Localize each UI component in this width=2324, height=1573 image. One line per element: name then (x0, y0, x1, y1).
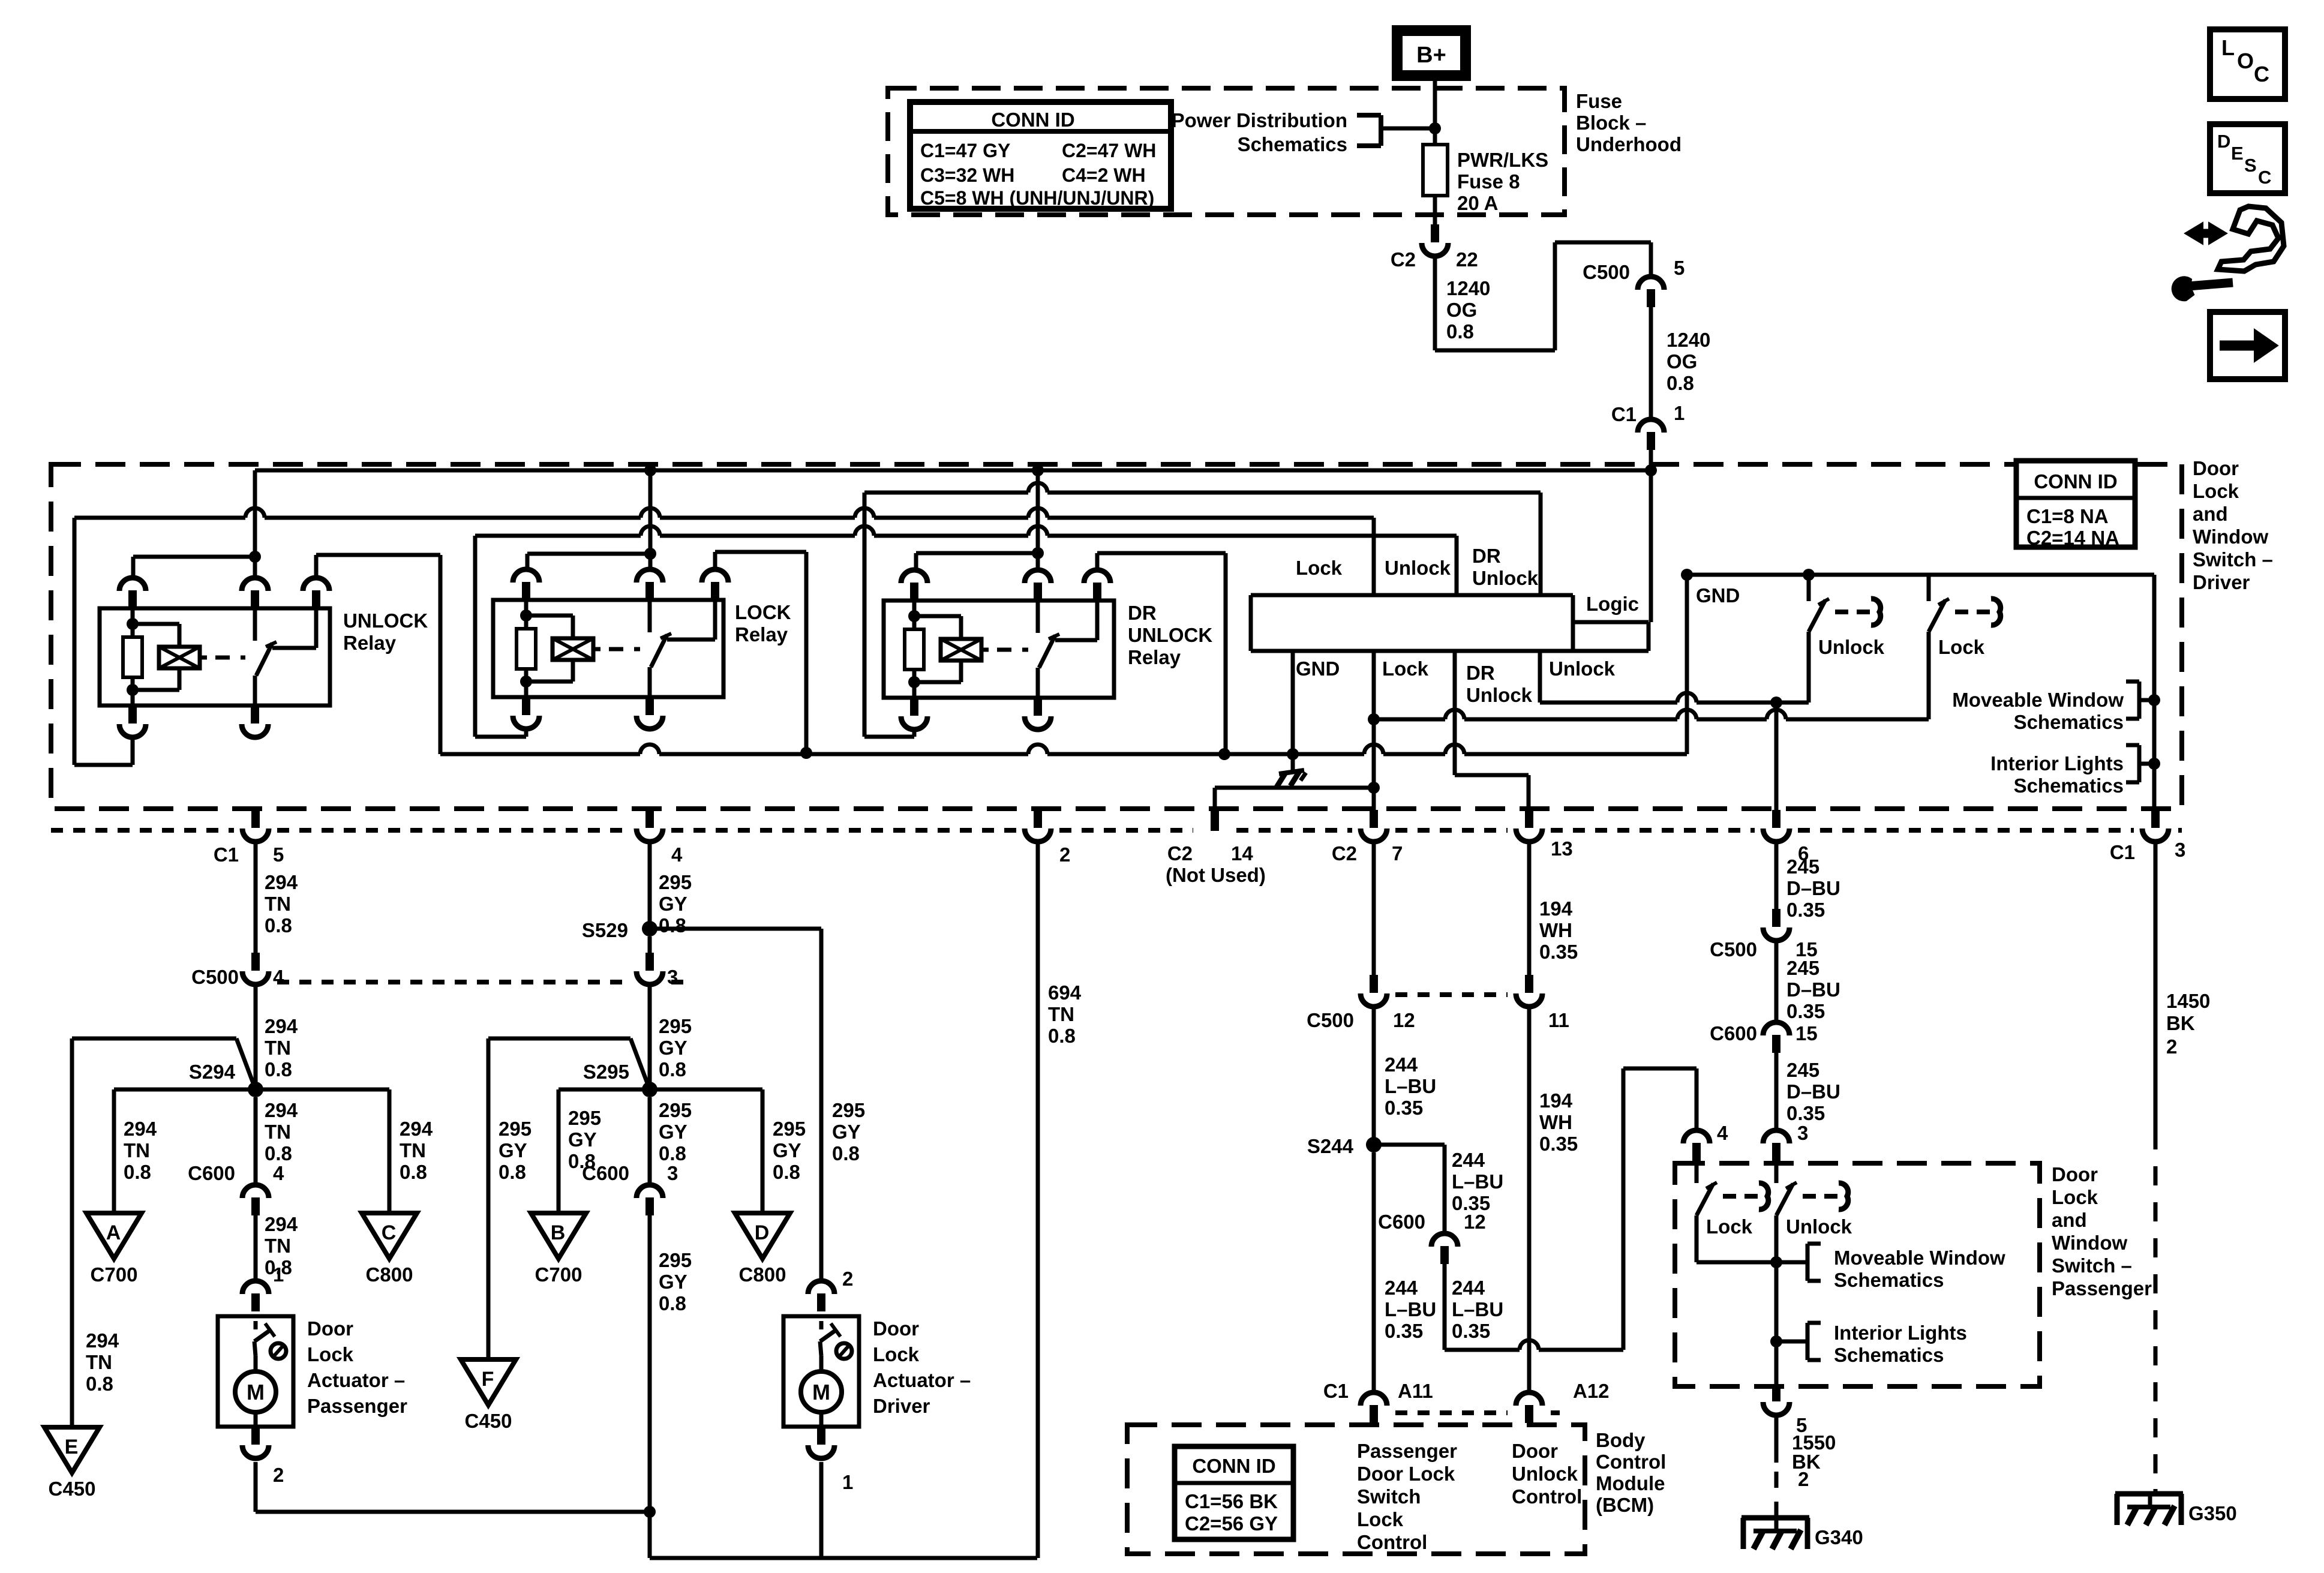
wire label 294 TN 0.8 (d) (265, 1213, 298, 1286)
svg-text:14: 14 (1231, 842, 1253, 864)
wire fuse to C2 (1433, 196, 1437, 224)
wire B+ to fuse block (1433, 76, 1437, 127)
svg-text:GY: GY (659, 1037, 687, 1059)
svg-text:D: D (2217, 131, 2230, 152)
wire label 294 TN 0.8 (E) (86, 1329, 119, 1395)
svg-text:0.8: 0.8 (832, 1142, 860, 1164)
svg-text:CONN ID: CONN ID (991, 109, 1074, 131)
svg-text:294: 294 (124, 1118, 157, 1140)
splice S294 (189, 1061, 263, 1097)
svg-text:294: 294 (265, 1213, 298, 1235)
svg-text:5: 5 (1674, 257, 1685, 279)
connector C1 pin 5 (214, 810, 284, 866)
svg-text:(Not Used): (Not Used) (1166, 864, 1266, 886)
svg-text:TN: TN (400, 1139, 426, 1161)
svg-text:UNLOCK: UNLOCK (1128, 624, 1212, 646)
wire bus B (255, 464, 1657, 476)
svg-text:C600: C600 (1378, 1211, 1425, 1233)
relay LOCK (493, 569, 791, 729)
wire label 295 GY 0.8 (F) (499, 1118, 532, 1183)
wire label 1550 BK 2 (1792, 1431, 1836, 1490)
svg-text:TN: TN (265, 1121, 291, 1143)
connector C600 pin 15 (1710, 1022, 1818, 1053)
svg-text:CONN ID: CONN ID (2034, 470, 2117, 493)
svg-text:Interior Lights: Interior Lights (1990, 752, 2124, 775)
svg-text:Schematics: Schematics (1834, 1344, 1944, 1366)
wire bus A (74, 508, 1374, 518)
triangle B (531, 1213, 586, 1286)
connector row line C500 right (1395, 992, 1508, 997)
switch passenger lock (1697, 1161, 1768, 1238)
svg-text:1240: 1240 (1446, 277, 1490, 299)
svg-text:O: O (2237, 49, 2254, 73)
connector row line C500 left (277, 980, 690, 984)
svg-text:C1=56 BK: C1=56 BK (1185, 1490, 1278, 1512)
wire actuator-D return (819, 1462, 824, 1558)
logic top labels (1296, 545, 1539, 589)
svg-text:Lock: Lock (307, 1343, 354, 1365)
conn id table (bcm) (1175, 1446, 1293, 1539)
wire S529 branch to driver actuator (650, 929, 821, 1281)
svg-text:S529: S529 (582, 919, 628, 941)
svg-text:1: 1 (273, 1263, 284, 1286)
svg-text:294: 294 (86, 1329, 119, 1352)
wire C1/5 to C500/4 (254, 841, 258, 953)
wire label 194 WH 0.35 (a) (1539, 897, 1578, 963)
svg-text:L–BU: L–BU (1385, 1075, 1436, 1097)
svg-text:D–BU: D–BU (1786, 978, 1840, 1001)
svg-text:(BCM): (BCM) (1596, 1494, 1654, 1516)
splice S295 (583, 1061, 657, 1097)
wire dr relay return drop (864, 493, 914, 737)
power symbol B+ (1397, 31, 1466, 76)
svg-text:Unlock: Unlock (1385, 557, 1451, 579)
wire C500/12 to S244 (1372, 1006, 1376, 1145)
module box Door Lock and Window Switch - Driver (51, 464, 2182, 809)
triangle C (362, 1213, 417, 1286)
svg-text:L–BU: L–BU (1452, 1298, 1503, 1320)
svg-text:C: C (382, 1221, 397, 1244)
ground G350 (2115, 1494, 2237, 1525)
svg-text:294: 294 (265, 1099, 298, 1121)
wire unlock line H1 (1540, 693, 1809, 709)
wire label 294 TN 0.8 (A) (124, 1118, 157, 1183)
conn id table (fuse block) (910, 102, 1171, 209)
module label passenger (2052, 1163, 2152, 1299)
svg-text:0.35: 0.35 (1539, 941, 1578, 963)
svg-text:0.8: 0.8 (1446, 320, 1474, 343)
wire C2/22 to C500/5 (1435, 242, 1651, 350)
relay UNLOCK (100, 578, 428, 737)
splice S244 (1307, 1135, 1382, 1157)
wire label 294 TN 0.8 (c) (265, 1099, 298, 1164)
wire C1/2 down (1036, 841, 1040, 1558)
wire label 295 GY 0.8 (e) (659, 1249, 692, 1314)
triangle F (461, 1359, 516, 1432)
svg-text:C500: C500 (1583, 261, 1630, 283)
svg-text:GY: GY (659, 1271, 687, 1293)
wire logic dr-unlock pin (1455, 651, 1529, 810)
wire label 245 D-BU 0.35 (c) (1786, 1059, 1840, 1124)
svg-text:2: 2 (842, 1268, 853, 1290)
connector C1 pin 1 (1611, 402, 1685, 450)
wire label 1450 BK 2 (2166, 990, 2210, 1058)
svg-text:Switch –: Switch – (2193, 548, 2273, 571)
icon arrow box (2210, 312, 2285, 379)
bcm fine dash row (1395, 1410, 1560, 1415)
svg-text:295: 295 (832, 1099, 865, 1121)
svg-text:C450: C450 (49, 1478, 96, 1500)
svg-text:4: 4 (671, 843, 683, 866)
svg-text:5: 5 (273, 843, 284, 866)
triangle E (44, 1427, 100, 1500)
wire label 295 GY 0.8 (S529) (832, 1099, 865, 1164)
svg-text:22: 22 (1456, 248, 1478, 271)
svg-text:4: 4 (273, 1162, 284, 1184)
module box Door Lock and Window Switch - Passenger (1675, 1163, 2040, 1386)
wire C600/15 to pin 3 (1774, 1053, 1779, 1131)
wire label 295 GY 0.8 (B) (568, 1107, 601, 1172)
svg-text:0.35: 0.35 (1452, 1320, 1490, 1342)
svg-text:C2=56 GY: C2=56 GY (1185, 1512, 1278, 1535)
svg-text:Unlock: Unlock (1512, 1463, 1578, 1485)
bcm box (1127, 1425, 1585, 1554)
wire C2/7 to C500/12 (1372, 841, 1376, 975)
wire passenger lock out (1697, 1215, 1776, 1262)
wire dr mid feed (1032, 470, 1044, 571)
actuator passenger (218, 1281, 407, 1458)
conn id table (driver switch) (2016, 461, 2135, 549)
svg-text:C3=32 WH: C3=32 WH (920, 164, 1014, 186)
svg-text:Control: Control (1357, 1531, 1427, 1553)
svg-text:Door: Door (2052, 1163, 2098, 1185)
logic input unlock (1455, 536, 1459, 595)
wire label 194 WH 0.35 (b) (1539, 1089, 1578, 1155)
svg-text:1240: 1240 (1667, 329, 1710, 351)
svg-text:Unlock: Unlock (1786, 1215, 1852, 1238)
svg-text:Logic: Logic (1586, 593, 1639, 615)
svg-text:3: 3 (667, 966, 678, 988)
svg-text:194: 194 (1539, 1089, 1573, 1112)
svg-text:295: 295 (773, 1118, 806, 1140)
svg-text:TN: TN (265, 1037, 291, 1059)
wire v2 unlock down (1774, 703, 1779, 810)
wire S295 branch D (653, 1089, 762, 1213)
svg-text:E: E (65, 1436, 79, 1458)
svg-text:G340: G340 (1815, 1526, 1863, 1548)
svg-text:194: 194 (1539, 897, 1573, 920)
svg-text:C2: C2 (1167, 842, 1193, 864)
svg-text:and: and (2052, 1209, 2087, 1231)
power distribution schematics callout (1172, 109, 1435, 155)
wire 13 to C500/11 (1527, 841, 1532, 975)
svg-text:Control: Control (1512, 1485, 1582, 1508)
icon DESC box (2210, 124, 2285, 193)
svg-text:C1=8 NA: C1=8 NA (2026, 505, 2109, 527)
svg-text:UNLOCK: UNLOCK (343, 610, 428, 632)
wire label 244 L-BU 0.35 (c) (1452, 1149, 1503, 1214)
svg-text:Interior Lights: Interior Lights (1834, 1322, 1967, 1344)
svg-text:Lock: Lock (873, 1343, 920, 1365)
connector pin 6 (1763, 810, 1809, 864)
junction fuse top (1429, 122, 1441, 134)
wire label 244 L-BU 0.35 (b) (0, 0, 1, 1)
svg-text:Switch: Switch (1357, 1485, 1421, 1508)
splice S529 (582, 919, 657, 941)
svg-text:295: 295 (659, 1099, 692, 1121)
wire C600/4 to actuator (254, 1215, 258, 1281)
wire C500/15 to C600/15 (1774, 940, 1779, 1023)
svg-text:L–BU: L–BU (1452, 1170, 1503, 1193)
svg-text:0.8: 0.8 (86, 1373, 113, 1395)
wire label 295 GY 0.8 (b) (659, 1015, 692, 1080)
wire C1/4 to S529 (648, 841, 652, 929)
svg-text:Schematics: Schematics (2014, 775, 2124, 797)
svg-text:C2: C2 (1332, 842, 1357, 864)
module label driver (2193, 457, 2273, 593)
wire C500/3 to S295 (648, 984, 652, 1089)
wire C1/1 to bus B and logic feed (1649, 450, 1653, 622)
svg-text:295: 295 (659, 871, 692, 893)
svg-text:2: 2 (2166, 1035, 2177, 1058)
label GND (driver pack) (1696, 584, 1740, 607)
svg-text:0.8: 0.8 (499, 1161, 526, 1183)
connector C1 pin 4 (636, 810, 683, 866)
wire unlock coil feed (133, 557, 251, 578)
logic bottom labels (1296, 658, 1616, 706)
connector C2 pin 14 stub (1166, 788, 1370, 886)
svg-text:TN: TN (265, 893, 291, 915)
svg-text:295: 295 (659, 1249, 692, 1271)
svg-text:Fuse 8: Fuse 8 (1457, 170, 1520, 193)
svg-text:CONN ID: CONN ID (1192, 1455, 1275, 1477)
svg-text:Module: Module (1596, 1472, 1665, 1494)
svg-text:C500: C500 (191, 966, 239, 988)
svg-text:0.35: 0.35 (1539, 1133, 1578, 1155)
svg-text:B+: B+ (1416, 43, 1446, 68)
svg-text:245: 245 (1786, 1059, 1819, 1081)
callout interior lights (driver) (1990, 745, 2154, 797)
svg-text:C5=8 WH (UNH/UNJ/UNR): C5=8 WH (UNH/UNJ/UNR) (920, 187, 1154, 209)
svg-text:4: 4 (1717, 1122, 1728, 1144)
svg-text:C2=14 NA: C2=14 NA (2026, 527, 2119, 549)
svg-text:Passenger: Passenger (1357, 1440, 1457, 1462)
wire gnd drop x2043 (1224, 553, 1228, 755)
wire S295 to C600/3 (648, 1097, 652, 1185)
svg-text:S294: S294 (189, 1061, 236, 1083)
fuse block dashed box (888, 88, 1565, 215)
svg-text:Passenger: Passenger (307, 1395, 407, 1417)
svg-text:Lock: Lock (1382, 658, 1429, 680)
svg-text:694: 694 (1048, 981, 1082, 1004)
connector pin 5 (passenger pack) (1763, 1385, 1807, 1436)
svg-text:Lock: Lock (2052, 1186, 2098, 1208)
svg-text:A11: A11 (1398, 1380, 1433, 1402)
wire 6 to C500/15 (1774, 841, 1779, 909)
svg-text:4: 4 (273, 966, 284, 988)
svg-text:3: 3 (2175, 839, 2185, 861)
svg-text:S: S (2244, 155, 2257, 176)
wire C600/12 to passenger pack (1445, 1068, 1697, 1350)
wire C1/3 to G350 (2154, 841, 2158, 1494)
svg-text:C1: C1 (1611, 403, 1637, 425)
svg-text:0.35: 0.35 (1786, 1000, 1825, 1022)
connector row line C1/C2 (51, 828, 2182, 833)
wire label 295 GY 0.8 (c) (659, 1099, 692, 1164)
svg-text:PWR/LKS: PWR/LKS (1457, 149, 1548, 171)
svg-text:D–BU: D–BU (1786, 877, 1840, 899)
svg-text:C2=47 WH: C2=47 WH (1062, 140, 1156, 161)
connector pin A12 (1516, 1380, 1610, 1423)
svg-text:Door: Door (1512, 1440, 1558, 1462)
svg-text:11: 11 (1548, 1009, 1569, 1031)
icon LOC box (2210, 29, 2285, 99)
svg-text:294: 294 (265, 1015, 298, 1037)
connector pin 4 (passenger pack) (1683, 1122, 1728, 1161)
svg-text:295: 295 (499, 1118, 532, 1140)
svg-text:3: 3 (667, 1162, 678, 1184)
svg-text:Window: Window (2193, 526, 2268, 548)
svg-text:WH: WH (1539, 919, 1572, 941)
svg-text:Passenger: Passenger (2052, 1277, 2152, 1299)
svg-text:Unlock: Unlock (1818, 636, 1885, 658)
wire label 245 D-BU 0.35 (a) (1786, 855, 1840, 921)
wire label 295 GY 0.8 (a) (659, 871, 692, 936)
triangle D (735, 1213, 790, 1286)
svg-text:C1: C1 (1323, 1380, 1349, 1402)
wire label 295 GY 0.8 (D) (773, 1118, 806, 1183)
svg-text:GND: GND (1296, 658, 1340, 680)
svg-text:GY: GY (832, 1121, 861, 1143)
wire S529 to C500/3 (648, 936, 652, 953)
svg-text:A12: A12 (1573, 1380, 1610, 1402)
svg-text:C4=2 WH: C4=2 WH (1062, 164, 1146, 186)
wire S294 branch E (72, 1038, 256, 1427)
svg-text:GY: GY (773, 1139, 801, 1161)
wire S294 branch A (114, 1089, 252, 1213)
svg-text:TN: TN (86, 1351, 112, 1373)
wire gnd riser (1681, 569, 1693, 754)
svg-text:0.8: 0.8 (400, 1161, 427, 1183)
bcm label (1596, 1429, 1666, 1516)
svg-text:1450: 1450 (2166, 990, 2210, 1012)
wire bus C (475, 526, 1457, 536)
connector C500 pin 3 (636, 953, 678, 988)
connector actuator-D labels (842, 1268, 853, 1493)
connector pin 3 (passenger pack) (1763, 1122, 1808, 1161)
wire label 294 TN 0.8 (b) (265, 1015, 298, 1080)
callout moveable window (driver) (1952, 682, 2154, 733)
wire lock coil feed (527, 554, 646, 570)
wire actuator-P return (256, 1462, 656, 1518)
svg-text:DR: DR (1466, 662, 1495, 684)
svg-text:Door Lock: Door Lock (1357, 1463, 1455, 1485)
svg-text:C1: C1 (214, 843, 239, 866)
svg-text:2: 2 (1059, 843, 1070, 866)
svg-text:0.8: 0.8 (659, 1292, 686, 1314)
svg-text:Door: Door (873, 1317, 919, 1340)
svg-text:L–BU: L–BU (1385, 1298, 1436, 1320)
svg-text:DR: DR (1472, 545, 1501, 567)
wire driver unlock sw out (1776, 632, 1809, 703)
svg-text:Schematics: Schematics (2014, 711, 2124, 733)
svg-text:TN: TN (1048, 1003, 1074, 1025)
svg-text:Door: Door (2193, 457, 2239, 479)
wire S294 to C600/4 (254, 1097, 258, 1185)
svg-text:244: 244 (1385, 1277, 1418, 1299)
connector C1 pin A11 (1323, 1380, 1433, 1423)
wire label 1240 OG 0.8 (a) (1446, 277, 1490, 343)
svg-text:C450: C450 (465, 1410, 512, 1432)
connector C600 pin 3 (582, 1162, 678, 1215)
wire C600/3 down (650, 1215, 1037, 1558)
svg-text:Relay: Relay (343, 632, 397, 654)
svg-text:Control: Control (1596, 1451, 1666, 1473)
switch driver unlock (1809, 575, 1885, 658)
callout interior lights (passenger) (1776, 1322, 1967, 1366)
connector C500 pin 11 (1516, 975, 1569, 1031)
wire S244 to A11 (1372, 1152, 1376, 1393)
svg-text:Moveable Window: Moveable Window (1952, 689, 2124, 711)
wire lock relay return drop (475, 536, 526, 737)
svg-text:0.8: 0.8 (265, 1058, 292, 1080)
wire driver pack right drop (2148, 575, 2160, 810)
svg-text:GND: GND (1696, 584, 1740, 607)
svg-text:Window: Window (2052, 1232, 2127, 1254)
connector C1 pin 3 (2110, 810, 2186, 863)
svg-text:Driver: Driver (873, 1395, 930, 1417)
wire label 294 TN 0.8 (a) (265, 871, 298, 936)
svg-text:GY: GY (659, 893, 687, 915)
svg-text:0.35: 0.35 (1786, 899, 1825, 921)
wire driver lock sw out (1927, 632, 1931, 719)
svg-text:295: 295 (659, 1015, 692, 1037)
wire dr-unlock feed (864, 483, 1541, 493)
svg-text:GY: GY (568, 1128, 597, 1151)
svg-text:Lock: Lock (1706, 1215, 1753, 1238)
svg-text:Body: Body (1596, 1429, 1646, 1451)
svg-text:12: 12 (1393, 1009, 1415, 1031)
svg-text:Lock: Lock (1938, 636, 1985, 658)
wire dr switch-out (1097, 553, 1226, 571)
fuse value label (1457, 149, 1548, 214)
svg-text:3: 3 (1797, 1122, 1808, 1144)
svg-text:Lock: Lock (1296, 557, 1343, 579)
wire unlock mid feed (249, 470, 261, 578)
wire unlock relay return loop (74, 518, 133, 765)
svg-text:C: C (2254, 62, 2269, 86)
svg-text:C800: C800 (739, 1263, 786, 1286)
svg-text:0.8: 0.8 (659, 1142, 686, 1164)
svg-text:and: and (2193, 503, 2228, 525)
svg-text:Unlock: Unlock (1466, 684, 1533, 706)
connector C1 pin 2 (1025, 810, 1070, 866)
svg-text:295: 295 (568, 1107, 601, 1129)
svg-text:C1=47 GY: C1=47 GY (920, 140, 1010, 161)
svg-text:0.8: 0.8 (1048, 1025, 1076, 1047)
wire lock line H2 (1374, 710, 1929, 719)
svg-text:Actuator –: Actuator – (307, 1369, 405, 1391)
svg-text:Schematics: Schematics (1834, 1269, 1944, 1291)
svg-text:TN: TN (124, 1139, 150, 1161)
wire S295 branch B (559, 1089, 646, 1213)
svg-text:Actuator –: Actuator – (873, 1369, 971, 1391)
wire logic gnd pin (1291, 651, 1295, 754)
svg-text:294: 294 (265, 871, 298, 893)
svg-text:A: A (106, 1221, 121, 1244)
switch passenger unlock (1776, 1161, 1852, 1238)
wire S244 branch right (1374, 1145, 1445, 1234)
